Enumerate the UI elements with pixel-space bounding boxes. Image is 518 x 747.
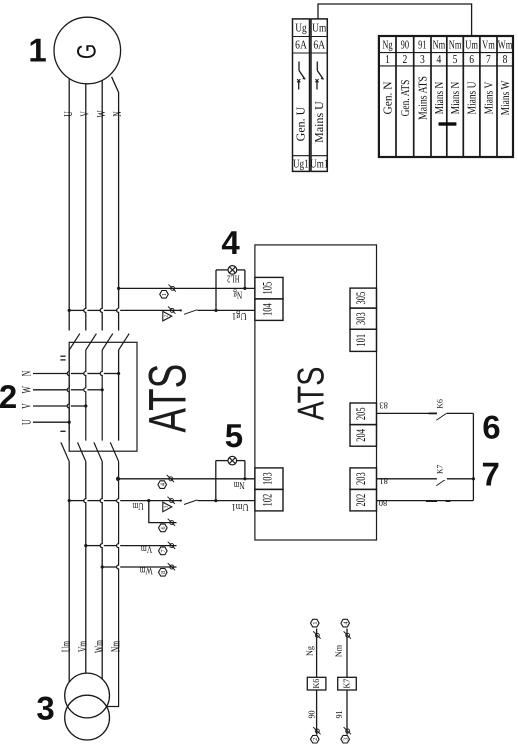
svg-text:Nm: Nm	[109, 641, 123, 652]
svg-text:Vm: Vm	[76, 641, 90, 652]
svg-text:91: 91	[418, 38, 426, 52]
svg-text:K6: K6	[311, 678, 321, 688]
svg-text:303: 303	[353, 312, 368, 325]
svg-text:Um: Um	[312, 21, 327, 35]
svg-text:4: 4	[437, 52, 442, 66]
svg-text:Um: Um	[59, 641, 73, 652]
svg-text:7: 7	[486, 52, 491, 66]
svg-text:Ng: Ng	[382, 38, 392, 52]
svg-text:N: N	[19, 370, 34, 376]
svg-text:Um1: Um1	[231, 501, 248, 512]
svg-text:Mians W: Mians W	[498, 80, 512, 115]
svg-text:Ng: Ng	[233, 289, 243, 300]
svg-text:Um: Um	[132, 500, 143, 511]
svg-text:4: 4	[159, 483, 166, 486]
svg-text:U: U	[19, 419, 34, 425]
svg-text:83: 83	[379, 401, 388, 411]
svg-text:2: 2	[0, 378, 17, 415]
svg-text:W: W	[19, 386, 34, 394]
svg-text:V: V	[77, 111, 91, 117]
svg-text:Mains ATS: Mains ATS	[415, 76, 429, 120]
svg-text:80: 80	[378, 498, 387, 508]
svg-text:305: 305	[353, 292, 368, 305]
svg-text:7: 7	[160, 549, 167, 552]
svg-text:101: 101	[353, 334, 368, 347]
svg-text:Mians N: Mians N	[432, 81, 446, 114]
svg-text:2: 2	[312, 738, 319, 741]
svg-text:Ug: Ug	[295, 21, 306, 35]
svg-text:U: U	[61, 111, 75, 117]
svg-text:Mians V: Mians V	[481, 81, 495, 114]
svg-text:ATS: ATS	[139, 364, 198, 433]
svg-text:K7: K7	[435, 465, 445, 474]
svg-text:Mains U: Mains U	[312, 101, 326, 143]
svg-text:G: G	[72, 44, 102, 59]
svg-text:8: 8	[503, 52, 508, 66]
svg-text:Wm: Wm	[140, 565, 153, 576]
svg-text:K6: K6	[435, 399, 445, 408]
svg-text:K7: K7	[342, 678, 352, 688]
svg-text:Ug1: Ug1	[232, 310, 247, 321]
svg-text:6A: 6A	[313, 38, 325, 52]
svg-text:1: 1	[28, 32, 46, 69]
svg-text:91: 91	[334, 710, 344, 718]
svg-text:Nm: Nm	[234, 479, 245, 490]
svg-text:Wm: Wm	[92, 640, 106, 653]
svg-text:5: 5	[225, 417, 243, 454]
svg-text:Um1: Um1	[310, 157, 328, 171]
svg-text:204: 204	[353, 429, 368, 442]
svg-text:1: 1	[161, 293, 168, 296]
svg-text:3: 3	[342, 738, 349, 741]
svg-text:1: 1	[385, 52, 390, 66]
svg-text:Gen. N: Gen. N	[380, 81, 394, 114]
svg-text:203: 203	[353, 472, 368, 485]
svg-text:90: 90	[306, 710, 316, 719]
svg-text:3: 3	[36, 689, 54, 726]
svg-text:6: 6	[482, 409, 500, 446]
svg-text:Gen. ATS: Gen. ATS	[398, 80, 412, 117]
svg-text:Nm: Nm	[334, 645, 344, 657]
svg-text:105: 105	[260, 282, 275, 295]
svg-text:Mians N: Mians N	[448, 81, 462, 114]
svg-text:4: 4	[342, 622, 349, 625]
svg-text:Nm: Nm	[449, 38, 462, 52]
svg-text:90: 90	[401, 38, 409, 52]
svg-text:7: 7	[482, 456, 500, 493]
svg-text:N: N	[110, 111, 124, 117]
svg-text:102: 102	[260, 494, 275, 507]
svg-text:3: 3	[420, 52, 425, 66]
svg-text:ATS: ATS	[289, 367, 331, 421]
svg-text:205: 205	[353, 407, 368, 420]
svg-text:4: 4	[221, 224, 240, 261]
svg-text:104: 104	[260, 303, 275, 316]
svg-text:1: 1	[312, 622, 319, 625]
svg-text:81: 81	[379, 476, 388, 486]
svg-text:HL2: HL2	[227, 273, 240, 284]
svg-text:Gen. U: Gen. U	[294, 106, 308, 141]
svg-text:W: W	[94, 110, 108, 117]
svg-text:6: 6	[469, 52, 474, 66]
svg-text:5: 5	[453, 52, 458, 66]
svg-text:Ug1: Ug1	[293, 157, 309, 171]
svg-text:Ng: Ng	[305, 646, 315, 656]
svg-text:Um: Um	[465, 38, 478, 52]
svg-text:Nm: Nm	[433, 38, 446, 52]
svg-text:Vm: Vm	[141, 543, 152, 554]
svg-text:Vm: Vm	[482, 38, 495, 52]
svg-text:8: 8	[160, 571, 167, 574]
svg-text:V: V	[19, 403, 34, 409]
svg-text:6: 6	[160, 526, 167, 529]
svg-text:Mians U: Mians U	[465, 81, 479, 114]
svg-text:103: 103	[260, 472, 275, 485]
svg-text:6A: 6A	[295, 38, 307, 52]
svg-text:2: 2	[402, 52, 407, 66]
svg-text:202: 202	[353, 494, 368, 507]
svg-text:Wm: Wm	[498, 38, 513, 52]
